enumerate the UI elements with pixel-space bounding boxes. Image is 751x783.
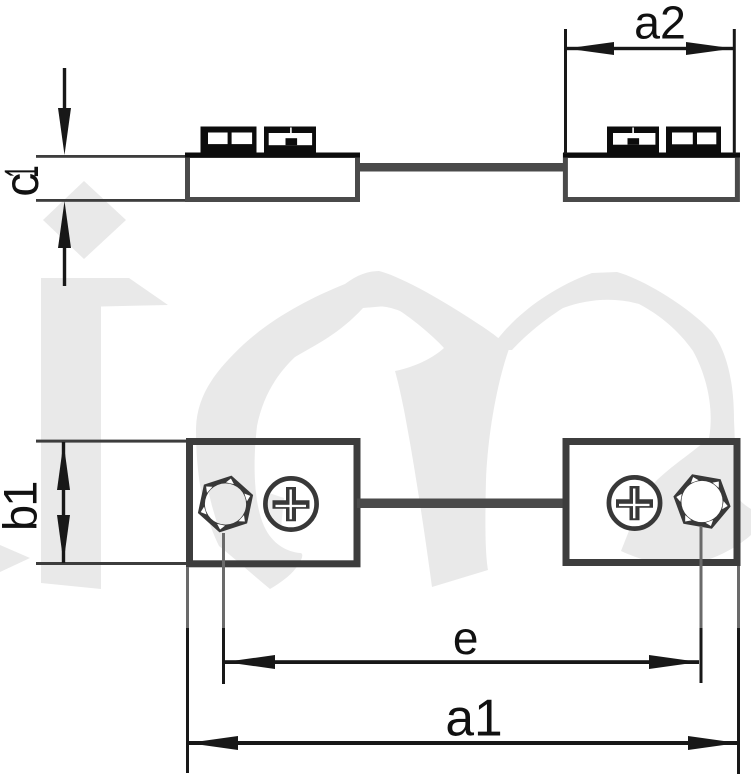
c1 arrow up (below) [58, 201, 71, 248]
b1 extension line bottom [36, 562, 186, 565]
watermark logo: left arch of m (left leg, hump, middle leg) [196, 271, 509, 589]
e extension line left (gray then black) [222, 533, 225, 628]
a2 extension line right [733, 29, 736, 154]
e dimension line with arrows [225, 660, 699, 664]
b1 extension line top [36, 440, 186, 443]
a2 dimension line with arrows [567, 47, 733, 50]
right block side view outline [565, 156, 737, 200]
c1 extension line bottom [36, 199, 185, 202]
watermark logo: stem of i with top flag [41, 278, 168, 589]
terminal lug D (two windows) [666, 127, 721, 154]
e extension line right (gray then black) [700, 526, 703, 628]
b1 dimension double arrow [62, 442, 65, 563]
a2 extension line left [564, 29, 567, 154]
a1 extension line right (gray then black) [737, 566, 740, 628]
watermark logo: right arch of m (over right hump, right leg, swash tail) [490, 272, 751, 565]
a1 extension line left (gray then black) [186, 567, 189, 628]
c1 extension line top [36, 155, 185, 158]
terminal lug B (notched window) [264, 127, 316, 154]
phillips screw right [611, 480, 658, 527]
watermark logo: dot of i (diamond) [43, 181, 126, 259]
right block top black strip [563, 153, 740, 158]
terminal lug A (two windows) [201, 127, 257, 154]
hex bolt right [681, 481, 722, 522]
right block top view outline [566, 442, 737, 563]
hex bolt left [205, 483, 246, 524]
left block top view outline [190, 442, 358, 564]
left block side view outline [188, 156, 358, 200]
svg-text:b1: b1 [0, 483, 47, 531]
terminal lug C (notched window) [607, 127, 659, 154]
c1 arrow down (above) [63, 68, 66, 112]
svg-text:a1: a1 [445, 689, 502, 747]
connecting bar top view [357, 499, 566, 509]
connecting bar side view [357, 163, 566, 172]
a1 dimension line with arrows [188, 741, 738, 745]
watermark logo: left wedge serif of i [0, 545, 30, 572]
phillips screw left [268, 481, 315, 528]
svg-text:1: 1 [0, 166, 48, 178]
svg-text:a2: a2 [634, 0, 686, 48]
svg-text:e: e [453, 612, 479, 664]
left block top black strip [185, 153, 360, 158]
